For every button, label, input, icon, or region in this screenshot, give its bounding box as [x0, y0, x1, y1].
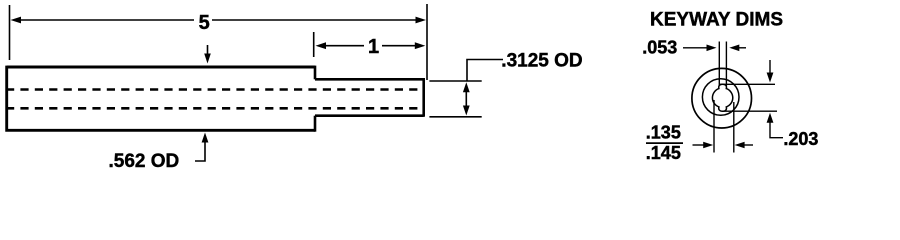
.562 OD leader with arrow to bottom surface [195, 136, 205, 161]
.053 left-pointing arrow [736, 47, 746, 49]
dim 5 right arrowhead [416, 17, 427, 24]
.3125 OD leader [467, 60, 503, 82]
.203 top extension line (keyway top tangent) [720, 83, 775, 85]
.135/.145 left-pointing arrow [742, 144, 753, 146]
svg-text:.145: .145 [646, 143, 681, 163]
.203 top down-arrow [769, 60, 771, 76]
dim 5 dimension line [18, 19, 194, 21]
.3125 OD vertical dimension line with arrows [465, 88, 467, 110]
.135/.145 right-pointing arrow [693, 144, 707, 146]
hidden bore dashed line upper [6, 88, 424, 91]
end view inner circle (.3125 OD) [702, 79, 739, 116]
dim 5 left arrowhead [11, 17, 22, 24]
svg-text:5: 5 [199, 12, 210, 34]
svg-text:.203: .203 [783, 129, 818, 149]
dim 1 right arrowhead [415, 42, 426, 49]
hidden bore dashed line lower [6, 107, 424, 110]
shaft body large section (.562 OD) [7, 66, 315, 132]
dim 5 left extension line [9, 5, 11, 60]
svg-text:.3125 OD: .3125 OD [501, 50, 582, 71]
dim 5 / dim 1 shared right extension line [426, 4, 428, 80]
dim 1 left extension line [313, 32, 315, 57]
keyway width extension lines (.053) [718, 42, 720, 87]
bore diameter extension lines (.135/.145) [713, 100, 715, 153]
svg-text:.053: .053 [642, 38, 677, 58]
svg-text:.135: .135 [646, 122, 681, 142]
dim 1 left arrowhead [316, 42, 327, 49]
step shoulder top [314, 66, 317, 80]
end view outer circle (.562 OD) [692, 68, 752, 128]
shaft body small section (.3125 OD) [315, 78, 424, 117]
svg-text:1: 1 [368, 36, 379, 58]
dim 5 pointer arrow to top surface [207, 45, 209, 56]
.3125 OD bottom extension line [429, 116, 481, 118]
.203 bottom up-arrow with leader to label [770, 118, 783, 138]
svg-text:.562 OD: .562 OD [109, 151, 180, 172]
svg-text:KEYWAY DIMS: KEYWAY DIMS [650, 10, 783, 31]
dim 1 dimension line [323, 45, 364, 47]
.053 right-pointing arrow [683, 47, 709, 49]
.3125 OD top extension line [429, 80, 481, 82]
keyed bore outline with top and bottom keyways [712, 84, 732, 111]
step shoulder bottom [314, 116, 317, 132]
.203 bottom extension line (keyway bottom tangent) [722, 110, 777, 112]
